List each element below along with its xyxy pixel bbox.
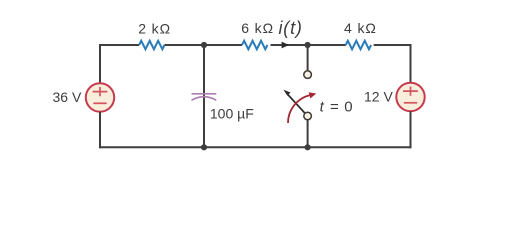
wire left branch lower xyxy=(99,112,101,149)
voltage source V1 36 V xyxy=(86,83,114,111)
V1 plus sign xyxy=(93,87,108,96)
current direction arrow for i(t) xyxy=(282,42,289,49)
wire switch branch lower xyxy=(307,120,309,148)
node bottom left junction xyxy=(201,144,207,150)
capacitor C1 top plate xyxy=(192,93,217,95)
svg-text:100 µF: 100 µF xyxy=(210,105,254,121)
wire top segment left (source to R1) xyxy=(100,44,139,46)
svg-text:4 kΩ: 4 kΩ xyxy=(344,20,377,36)
svg-text:12 V: 12 V xyxy=(364,89,393,105)
resistor R2 6 kΩ xyxy=(242,41,267,50)
node top right junction xyxy=(305,42,311,48)
svg-text:36 V: 36 V xyxy=(53,89,82,105)
resistor R1 2 kΩ xyxy=(139,41,164,50)
wire bottom xyxy=(99,146,412,148)
wire left branch upper xyxy=(99,44,101,84)
V2 minus sign xyxy=(404,102,417,104)
switch motion red arc xyxy=(288,95,310,123)
wire top segment between R1 and R2 xyxy=(165,44,243,46)
wire switch branch upper xyxy=(307,45,309,70)
node bottom right junction xyxy=(305,144,311,150)
wire right branch upper xyxy=(410,44,412,83)
wire capacitor branch xyxy=(203,45,205,147)
switch motion arrowhead xyxy=(309,92,317,98)
capacitor C1 curved plate xyxy=(192,97,217,101)
V1 minus sign xyxy=(93,102,106,104)
svg-text:t=0: t=0 xyxy=(320,99,353,116)
svg-text:2 kΩ: 2 kΩ xyxy=(138,21,171,37)
switch bottom contact xyxy=(304,112,312,120)
voltage source V2 12 V xyxy=(396,83,424,111)
switch top contact xyxy=(304,71,312,79)
V2 plus sign xyxy=(403,87,418,96)
node top left junction xyxy=(201,42,207,48)
switch blade arrowhead xyxy=(283,90,290,96)
switch blade xyxy=(288,94,305,113)
svg-text:6 kΩ: 6 kΩ xyxy=(241,20,274,36)
wire top segment right (R3 to corner) xyxy=(374,44,411,46)
svg-text:i(t): i(t) xyxy=(279,18,303,38)
wire right branch lower xyxy=(410,111,412,148)
resistor R3 4 kΩ xyxy=(346,41,371,50)
wire top segment between R2 and R3 xyxy=(271,44,346,46)
